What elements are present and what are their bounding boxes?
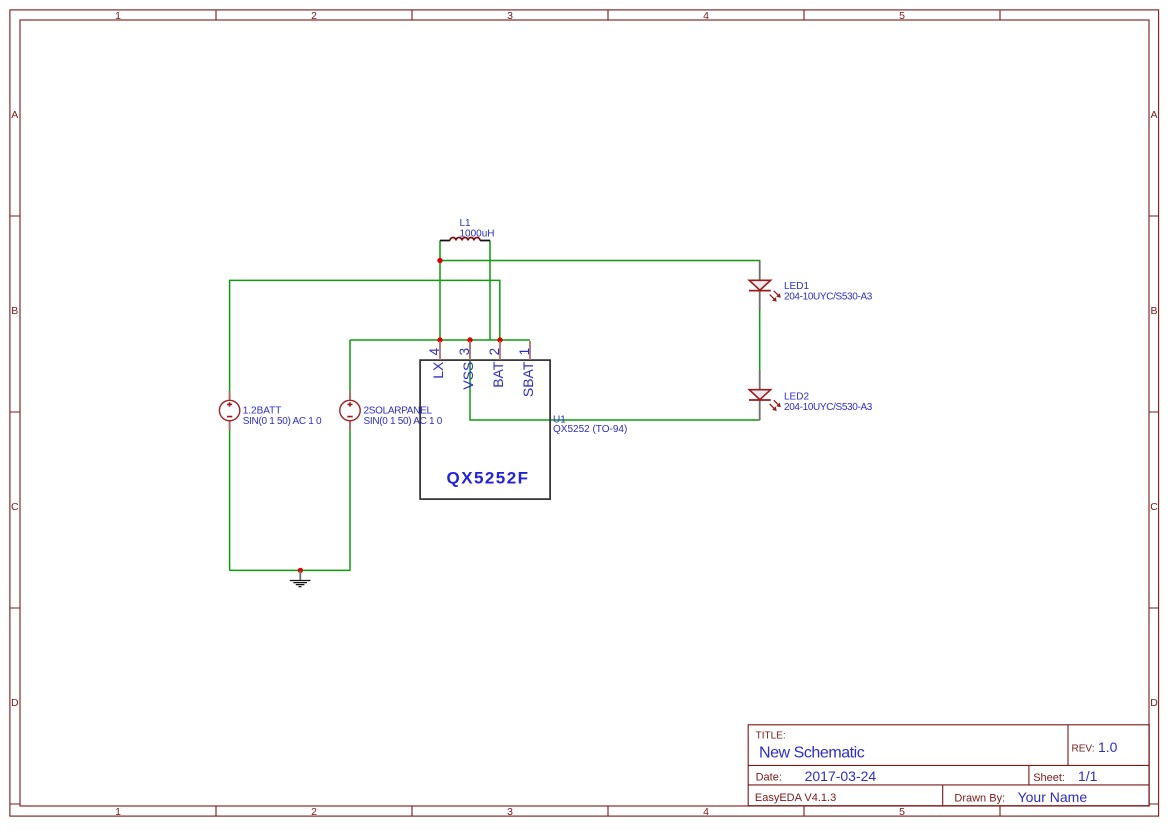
svg-text:Sheet:: Sheet: (1033, 772, 1065, 784)
wire between LED1 and LED2 (759, 310, 761, 370)
svg-text:2SOLARPANEL: 2SOLARPANEL (364, 405, 433, 416)
svg-text:4: 4 (427, 347, 442, 355)
LED LED2 (749, 370, 781, 421)
svg-text:REV:: REV: (1072, 743, 1095, 754)
svg-text:1: 1 (115, 10, 121, 22)
svg-text:C: C (1150, 501, 1158, 513)
wire 1.2BATT minus down (229, 430, 231, 570)
svg-text:BAT: BAT (490, 361, 506, 388)
svg-text:Your Name: Your Name (1018, 789, 1088, 805)
svg-text:2: 2 (311, 10, 317, 22)
ground (290, 570, 311, 586)
wire SOLARPANEL minus down (349, 430, 351, 570)
pin 1 SBAT stub (529, 341, 531, 360)
svg-text:204-10UYC/S530-A3: 204-10UYC/S530-A3 (784, 292, 873, 303)
wire ground bus horizontal (230, 569, 350, 571)
wire L1 left to LX pin 4 vertical (439, 241, 441, 341)
svg-text:3: 3 (507, 10, 513, 22)
node ground junction (298, 568, 303, 573)
svg-text:A: A (11, 109, 18, 121)
svg-text:4: 4 (703, 10, 709, 22)
node pin 4 junction (437, 337, 442, 342)
op-amp / IC U1 QX5252F body (420, 360, 550, 499)
svg-text:B: B (11, 305, 18, 317)
LED LED1 (749, 261, 781, 311)
wire SOLARPANEL plus to pin bus (349, 340, 351, 391)
svg-text:LED1: LED1 (784, 281, 809, 292)
svg-text:1.0: 1.0 (1098, 739, 1118, 755)
svg-text:1/1: 1/1 (1078, 768, 1098, 784)
svg-text:TITLE:: TITLE: (756, 730, 786, 741)
voltage source 1.2BATT (219, 391, 239, 430)
svg-text:1: 1 (517, 348, 532, 356)
wire pin bus horizontal (350, 339, 530, 341)
svg-text:5: 5 (899, 10, 905, 22)
svg-text:204-10UYC/S530-A3: 204-10UYC/S530-A3 (784, 402, 873, 413)
svg-text:D: D (1150, 697, 1158, 709)
inductor L1 (440, 238, 490, 241)
wire L1 right vertical (489, 241, 491, 341)
pin 3 VSS stub (469, 341, 471, 360)
svg-text:C: C (11, 501, 19, 513)
svg-text:Date:: Date: (756, 772, 782, 784)
node pin 3 junction (467, 337, 472, 342)
svg-text:EasyEDA V4.1.3: EasyEDA V4.1.3 (755, 792, 836, 804)
svg-text:QX5252F: QX5252F (447, 468, 530, 487)
svg-text:SBAT: SBAT (520, 361, 536, 397)
svg-text:VSS: VSS (460, 362, 476, 390)
title block (748, 725, 1149, 806)
svg-text:2: 2 (311, 806, 317, 818)
svg-text:5: 5 (899, 806, 905, 818)
svg-text:D: D (11, 697, 19, 709)
svg-text:New Schematic: New Schematic (759, 745, 865, 762)
svg-text:SIN(0 1 50) AC 1 0: SIN(0 1 50) AC 1 0 (243, 416, 322, 427)
svg-text:1000uH: 1000uH (460, 228, 495, 239)
svg-text:Drawn By:: Drawn By: (954, 792, 1005, 804)
wire 1.2BATT plus to BAT pin 2 (230, 280, 500, 391)
svg-text:3: 3 (507, 806, 513, 818)
wire node A to LED1 anode horizontal (440, 260, 760, 262)
node junction L1/LX/LED (437, 258, 442, 263)
svg-text:B: B (1150, 305, 1157, 317)
svg-text:QX5252 (TO-94): QX5252 (TO-94) (553, 424, 627, 435)
svg-text:2017-03-24: 2017-03-24 (805, 768, 877, 784)
svg-text:4: 4 (703, 806, 709, 818)
svg-text:1.2BATT: 1.2BATT (243, 405, 282, 416)
wire VSS pin 3 to LED2 cathode (470, 340, 760, 420)
svg-text:LX: LX (430, 361, 446, 379)
svg-text:SIN(0 1 50) AC 1 0: SIN(0 1 50) AC 1 0 (364, 416, 443, 427)
svg-text:LED2: LED2 (784, 391, 809, 402)
svg-text:2: 2 (487, 348, 502, 356)
pin 2 BAT stub (499, 341, 501, 360)
pin 4 LX stub (439, 341, 441, 360)
svg-text:1: 1 (115, 806, 121, 818)
svg-text:3: 3 (457, 348, 472, 356)
node pin 2 junction (497, 337, 502, 342)
svg-text:A: A (1150, 109, 1157, 121)
voltage source 2SOLARPANEL (340, 391, 360, 430)
